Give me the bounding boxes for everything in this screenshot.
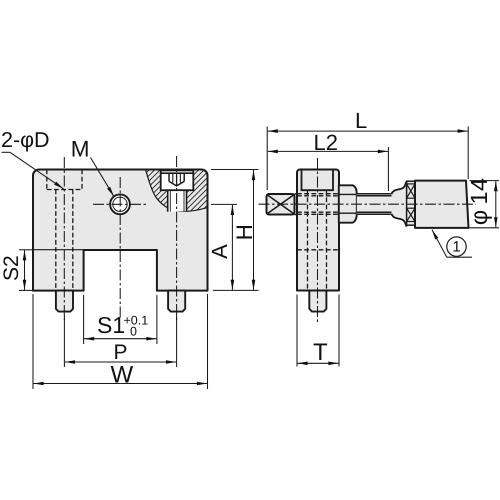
svg-text:S1: S1	[97, 312, 125, 338]
svg-text:T: T	[313, 339, 328, 366]
svg-text:W: W	[111, 362, 134, 389]
svg-text:S2: S2	[0, 255, 23, 281]
svg-text:L: L	[355, 108, 367, 133]
svg-text:2-φD: 2-φD	[1, 128, 50, 152]
svg-text:φ14: φ14	[466, 178, 492, 226]
svg-text:M: M	[71, 136, 90, 161]
svg-text:A: A	[207, 244, 232, 259]
svg-text:1: 1	[452, 239, 460, 256]
svg-text:L2: L2	[314, 130, 338, 155]
svg-text:0: 0	[130, 325, 137, 339]
svg-text:H: H	[232, 224, 257, 240]
